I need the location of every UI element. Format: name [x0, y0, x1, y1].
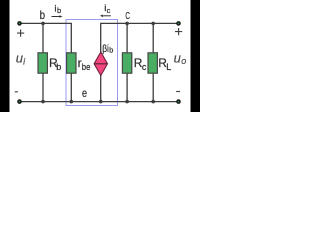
svg-text:βi: βi	[102, 44, 109, 55]
svg-text:u: u	[16, 51, 23, 66]
svg-text:e: e	[82, 86, 87, 100]
svg-text:L: L	[166, 62, 171, 72]
svg-text:o: o	[181, 56, 186, 66]
svg-text:u: u	[174, 50, 181, 65]
svg-text:c: c	[142, 62, 147, 72]
svg-text:be: be	[82, 62, 91, 72]
svg-text:c: c	[107, 6, 111, 15]
svg-text:C: C	[125, 11, 130, 22]
svg-text:b: b	[40, 8, 46, 22]
svg-text:b: b	[109, 45, 113, 54]
svg-text:b: b	[57, 6, 61, 15]
svg-text:b: b	[56, 62, 61, 72]
